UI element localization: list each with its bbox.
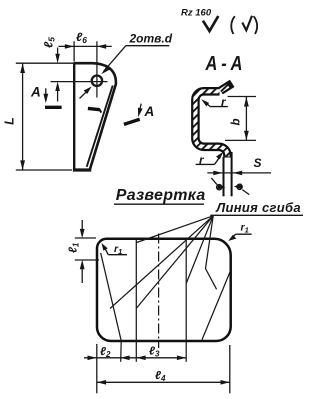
dimension l4 xyxy=(97,381,230,383)
bend line S2 slanted xyxy=(202,271,231,340)
svg-text:Rz 160: Rz 160 xyxy=(181,8,212,19)
svg-text:Развертка: Развертка xyxy=(116,187,206,204)
svg-text:A - A: A - A xyxy=(205,51,243,74)
section mark A right xyxy=(124,119,140,124)
development outline rounded rect xyxy=(97,239,231,341)
dimension l5 xyxy=(57,48,59,102)
section mark A left xyxy=(45,106,62,109)
svg-text:b: b xyxy=(231,118,243,125)
wire hole vertical centerline / l6 extension xyxy=(96,41,98,97)
wire l6 left extension xyxy=(73,41,75,61)
extensions bottom xyxy=(97,344,230,393)
leader fan from Liniya sgiba xyxy=(110,216,217,309)
bend line V1 xyxy=(135,240,137,362)
(v) mark xyxy=(231,16,235,34)
svg-text:A: A xyxy=(30,85,41,100)
bend-line pointer right at tail xyxy=(242,190,249,195)
section mark middle stroke xyxy=(88,108,100,109)
bend-line pointer left at tail xyxy=(211,178,217,185)
hole 2 otv d xyxy=(92,76,102,86)
svg-text:L: L xyxy=(3,117,17,125)
svg-text:S: S xyxy=(254,156,262,170)
dimension l2 l3 line xyxy=(84,357,186,359)
dimension s xyxy=(207,172,271,174)
bend line S1 slanted xyxy=(101,253,122,362)
dimension l6 xyxy=(59,45,112,47)
svg-text:2отв.d: 2отв.d xyxy=(129,31,173,45)
part outline left view xyxy=(74,63,116,170)
tail of section: thin sheet seen on edge xyxy=(224,152,232,196)
wire hole horizontal centerline xyxy=(51,81,108,83)
section profile of bent sheet xyxy=(195,83,232,157)
dimension L xyxy=(16,63,73,170)
svg-text:A: A xyxy=(144,104,155,119)
bend line V3 xyxy=(185,240,187,362)
svg-text:Линия сгиба: Линия сгиба xyxy=(215,200,301,215)
dimension b xyxy=(225,97,256,141)
centerline V2 dash-dot xyxy=(158,234,160,349)
wire inner slant edge xyxy=(87,86,113,167)
dimension l1 xyxy=(75,220,99,283)
wire bottom edge of part xyxy=(73,168,91,171)
leader arrow lower-left at hole xyxy=(80,89,90,98)
wire left edge of part xyxy=(73,62,75,170)
